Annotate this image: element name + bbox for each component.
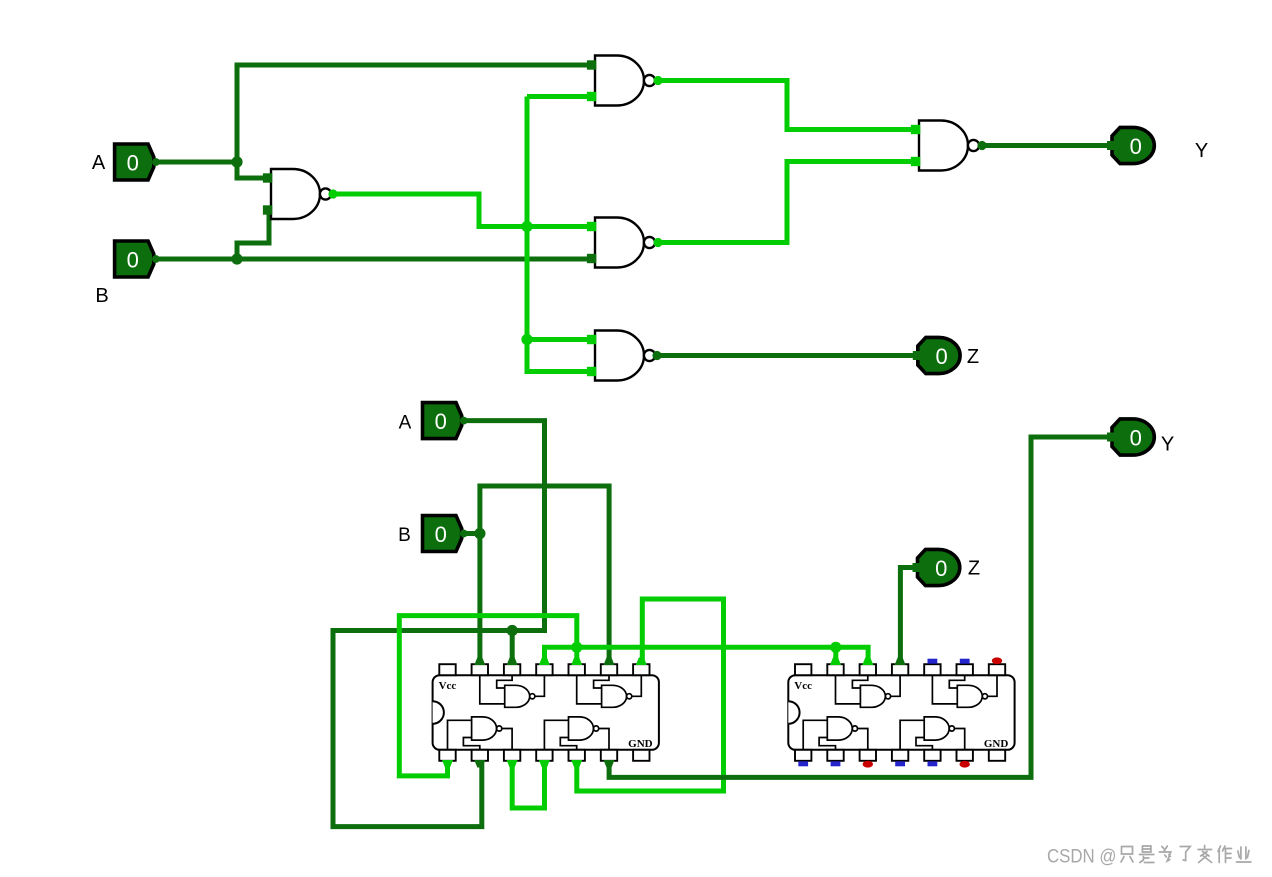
svg-text:Z: Z xyxy=(968,558,980,580)
IC U7 internal NAND gate 1 xyxy=(836,675,901,707)
IC U6 internal NAND gate 3 xyxy=(577,675,642,707)
svg-text:0: 0 xyxy=(935,556,947,581)
wire net N1: U1 output to U3 input 1 (with junction to vertical) xyxy=(335,194,591,227)
wire net Z2: IC U7 pin 11 to output Z xyxy=(900,568,917,663)
IC U6 top pin 8 xyxy=(633,664,649,675)
svg-text:0: 0 xyxy=(127,150,139,175)
IC U7 top pin 9 xyxy=(957,664,973,675)
NAND U3 output port dot xyxy=(653,238,662,247)
wire net Y (top circuit) xyxy=(984,143,1112,148)
wire net N1: vertical trunk xyxy=(525,97,530,340)
svg-text:A: A xyxy=(92,152,106,174)
wire net Z (top circuit) xyxy=(659,353,918,358)
IC U6 wire stubs at connected pins xyxy=(442,658,647,768)
junction node A2 xyxy=(507,625,518,636)
IC U7 bottom pin 4 xyxy=(892,750,908,761)
wire net N3: U3 output to U4 input 2 xyxy=(660,162,911,243)
IC U6 internal NAND gate 1 xyxy=(480,675,545,707)
IC U6 bottom pin 5 xyxy=(569,750,585,761)
junction node B xyxy=(231,253,242,264)
NAND gate U4 (output Y) xyxy=(911,121,979,171)
IC U7 top pin 10 xyxy=(924,664,940,675)
junction node N1-a xyxy=(521,221,532,232)
wire net B2: junction down to IC U6 pin 13 xyxy=(477,531,482,662)
IC U6 top pin 14 xyxy=(439,664,455,675)
IC U6 top pin 13 xyxy=(472,664,488,675)
node label A (bottom circuit) xyxy=(399,413,412,434)
svg-text:GND: GND xyxy=(984,738,1009,750)
NAND U2 output port dot xyxy=(653,76,662,85)
svg-text:0: 0 xyxy=(935,344,947,369)
svg-text:CSDN @: CSDN @ xyxy=(1047,846,1117,868)
wire net A: pin A to junction xyxy=(156,160,237,165)
wire net N1: branch to NAND U5 input 1 xyxy=(527,337,591,342)
IC U6 bottom pin 4 xyxy=(536,750,552,761)
IC U7 bottom pin 7 xyxy=(989,750,1005,761)
wire net Y2: IC U6 pin 3 to output Y xyxy=(609,437,1112,777)
IC U6 bottom pin 2 xyxy=(472,750,488,761)
IC U6 top pin 10 xyxy=(569,664,585,675)
input pin A (top circuit), value 0 xyxy=(115,144,160,180)
node label B (top circuit) xyxy=(95,285,108,307)
output pin Z (bottom circuit), value 0 xyxy=(913,549,981,585)
IC U7 top pin 8 xyxy=(989,664,1005,675)
NAND U4 output port dot xyxy=(977,141,986,150)
svg-text:B: B xyxy=(95,285,108,307)
input pin A (bottom circuit), value 0 xyxy=(423,403,468,439)
IC U6 bottom pin 3 xyxy=(504,750,520,761)
IC U7 internal NAND gate 4 xyxy=(900,717,965,750)
svg-text:Vcc: Vcc xyxy=(439,680,457,692)
svg-text:Z: Z xyxy=(967,346,979,368)
IC U7 top pin 12 xyxy=(860,664,876,675)
svg-text:Y: Y xyxy=(1161,434,1174,456)
svg-text:0: 0 xyxy=(127,247,139,272)
IC U6 bottom pin 6 xyxy=(601,750,617,761)
IC U7 wire stubs at connected pins xyxy=(830,658,906,666)
IC U7 bottom pin 6 xyxy=(957,750,973,761)
output pin Y (top circuit), value 0 xyxy=(1107,127,1208,163)
IC U7 bottom pin 2 xyxy=(827,750,843,761)
IC U6: 7400 quad NAND body xyxy=(433,675,659,750)
svg-text:B: B xyxy=(398,525,411,546)
wire net G: horizontal distribution xyxy=(545,647,869,662)
NAND gate U5 (output Z) xyxy=(587,331,655,381)
IC U7 top pin 14 xyxy=(795,664,811,675)
junction node B2 xyxy=(474,528,485,539)
IC U6 top pin 9 xyxy=(601,664,617,675)
watermark CSDN @只是为了交作业 xyxy=(1047,846,1251,868)
IC U6 top pin 12 xyxy=(504,664,520,675)
IC U6 internal NAND gate 4 xyxy=(544,717,609,750)
wire net U: IC U6 pin 2 to pin 11 (U loop) xyxy=(512,758,544,808)
svg-text:GND: GND xyxy=(628,738,653,750)
output pin Y (bottom circuit), value 0 xyxy=(1107,419,1174,456)
IC U7 bottom pin 5 xyxy=(924,750,940,761)
IC U7 top pin 11 xyxy=(892,664,908,675)
NAND gate U3 (middle) xyxy=(587,218,655,268)
wire net G: IC U6 pin 1 loop up to pins 11,10 and IC U7 pins 13,12 xyxy=(399,616,577,776)
junction node N1-b xyxy=(521,334,532,345)
svg-text:0: 0 xyxy=(435,409,447,434)
NAND U5 output port dot xyxy=(652,351,661,360)
output pin Z (top circuit), value 0 xyxy=(913,337,979,373)
wire net G: branch down to IC U7 pin 13 xyxy=(833,647,838,662)
IC U7: 7400 quad NAND body xyxy=(788,675,1014,750)
junction node A xyxy=(231,156,242,167)
junction node G1 xyxy=(571,642,582,653)
wire net A2: branch down to IC U6 pin 12 xyxy=(510,631,515,663)
svg-text:A: A xyxy=(399,413,412,434)
IC U7 top pin 13 xyxy=(827,664,843,675)
svg-text:0: 0 xyxy=(1130,134,1142,159)
wire net B: pin B to NAND U3 input 2 xyxy=(156,257,591,262)
wire net B2: junction up and over to IC U6 pin 9 xyxy=(480,486,609,662)
node label B (bottom circuit) xyxy=(398,525,411,546)
IC U6 internal NAND gate 2 xyxy=(448,717,513,750)
IC U7 bottom pin 1 xyxy=(795,750,811,761)
wire net B: junction up to NAND U1 input 2 xyxy=(237,213,269,259)
input pin B (top circuit), value 0 xyxy=(115,241,160,277)
wire net A: junction up to NAND U2 input 1 xyxy=(237,65,591,165)
junction node G2 xyxy=(830,642,841,653)
NAND U1 output port dot xyxy=(328,189,337,198)
input pin B (bottom circuit), value 0 xyxy=(423,516,468,552)
wire net N1: branch to NAND U5 input 2 xyxy=(527,337,591,372)
IC U6 bottom pin 1 xyxy=(439,750,455,761)
wire net G: branch down to IC U6 pin 10 xyxy=(574,647,579,662)
IC U7 internal NAND gate 3 xyxy=(932,675,997,707)
wire net N1: branch to NAND U2 input 2 xyxy=(527,94,591,99)
wire net A: junction down to NAND U1 input 1 xyxy=(237,160,267,178)
wire net N2: U2 output to U4 input 1 xyxy=(660,81,911,130)
svg-text:Vcc: Vcc xyxy=(794,680,812,692)
svg-text:0: 0 xyxy=(1130,425,1142,450)
svg-text:0: 0 xyxy=(435,522,447,547)
NAND gate U1 (inputs A,B) xyxy=(263,169,331,219)
NAND gate U2 (top) xyxy=(587,56,655,106)
wire net B2: pin B to junction xyxy=(464,531,480,536)
IC U6 bottom pin 7 xyxy=(633,750,649,761)
svg-text:Y: Y xyxy=(1195,140,1208,162)
IC U7 unconnected pin markers xyxy=(798,657,1002,767)
node label A (top circuit) xyxy=(92,152,106,174)
IC U7 internal NAND gate 2 xyxy=(803,717,868,750)
wire net A2: pin A to IC U6 pin 12 loop xyxy=(333,421,545,827)
IC U7 bottom pin 3 xyxy=(860,750,876,761)
IC U6 top pin 11 xyxy=(536,664,552,675)
wire net V: IC U6 pin 4 around to pin 8 xyxy=(577,599,724,791)
